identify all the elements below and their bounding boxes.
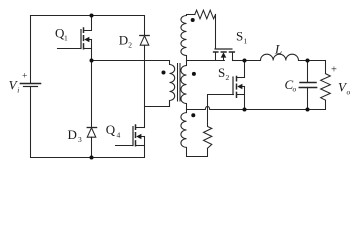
Q4 channel dashes: [135, 125, 137, 146]
transistor Q1: [58, 16, 92, 61]
S1 drain stub: [232, 53, 234, 61]
svg-text:L: L: [274, 42, 282, 57]
Q1 body stub with arrow: [89, 39, 92, 41]
Q1 source stub: [84, 48, 91, 50]
wire tap1 to S1 source: [187, 60, 225, 62]
svg-text:Q: Q: [106, 122, 116, 137]
Q1 gate lead: [58, 48, 81, 50]
Q4 body stub with arrow: [141, 136, 145, 138]
wire top rail: [31, 15, 145, 17]
svg-text:3: 3: [78, 135, 82, 144]
svg-text:+: +: [331, 64, 337, 75]
wire node A to L: [245, 60, 261, 62]
battery Vi plate short (-): [24, 86, 38, 88]
wire upper winding to gate resistor: [187, 14, 195, 16]
S2 drain stub: [237, 77, 245, 79]
Q1 channel dashes: [83, 28, 85, 49]
S2 gate lead: [208, 95, 234, 126]
svg-text:D: D: [68, 127, 77, 142]
svg-text:2: 2: [226, 73, 230, 82]
svg-text:o: o: [293, 85, 297, 94]
transformer primary winding: [170, 61, 175, 107]
svg-text:o: o: [347, 88, 351, 97]
polarity dot lower winding: [191, 113, 195, 117]
diode D2: [140, 16, 149, 46]
Q1 gate bar: [80, 30, 82, 49]
svg-text:D: D: [119, 33, 128, 48]
diode D3 branch vertical upper: [91, 61, 93, 128]
wire primary bottom line: [145, 101, 170, 107]
S1 source stub: [215, 53, 217, 61]
wire resistor to S1 gate: [215, 15, 217, 49]
svg-text:i: i: [17, 85, 19, 94]
Q4 source stub: [136, 145, 144, 147]
S2 source stub: [237, 94, 245, 96]
S2 channel dashes: [236, 77, 238, 98]
transformer core: [178, 64, 181, 102]
inductor L: [261, 54, 299, 60]
diode D3 lower lead: [91, 137, 93, 157]
S1 gate bar: [215, 48, 232, 50]
secondary main winding: [181, 61, 187, 110]
wire left vertical to battery: [30, 16, 32, 83]
S1 body stub with arrow: [223, 57, 225, 61]
polarity dot primary: [162, 71, 166, 75]
node A S1-S2-L: [243, 59, 247, 63]
node Q1 drain / top rail: [90, 14, 94, 18]
node Q1 source / D3 / primary: [90, 59, 94, 63]
node Co bottom / rail: [306, 108, 310, 112]
Q4 body-source junction vertical: [144, 137, 146, 158]
wire battery bottom to bottom rail: [30, 87, 32, 157]
svg-text:S: S: [218, 65, 225, 80]
S2 body-source vertical to rail: [244, 87, 246, 110]
secondary lower gate winding: [181, 110, 187, 157]
transistor Q4: [116, 125, 145, 158]
transistor S1 (rotated): [187, 49, 245, 61]
Q1 drain stub: [84, 16, 91, 31]
load resistor: [308, 61, 331, 110]
polarity dot upper winding: [191, 18, 195, 22]
wire S1 drain to node A: [233, 60, 245, 62]
node B L-Co: [306, 59, 310, 63]
S1 channel dashes: [214, 51, 235, 53]
diode D3: [87, 128, 96, 138]
svg-text:+: +: [22, 71, 27, 81]
wire L to node B and load: [299, 60, 326, 62]
wire D2 anode down to Q4 drain: [144, 45, 146, 127]
svg-text:1: 1: [244, 37, 248, 46]
wire resistor bottom to lower winding: [187, 148, 208, 156]
resistor S1 gate series: [195, 10, 216, 19]
Q4 gate bar: [132, 127, 134, 146]
S2 drain vertical from node A: [244, 61, 246, 78]
battery Vi plate long (+): [21, 83, 41, 85]
secondary upper gate winding: [181, 15, 187, 61]
wire tap2 rail with hop over gate lead: [187, 106, 245, 109]
Q4 drain stub: [136, 127, 144, 129]
wire Q1 source to primary top: [92, 60, 170, 62]
svg-text:4: 4: [117, 131, 121, 140]
Q1 body-source junction vertical: [91, 40, 93, 61]
transistor S2: [208, 61, 245, 126]
svg-text:2: 2: [128, 41, 132, 50]
node S2 source / rail: [243, 108, 247, 112]
svg-text:S: S: [236, 28, 243, 43]
svg-text:1: 1: [64, 33, 68, 42]
S2 gate bar: [232, 77, 234, 95]
node D3 / bottom rail: [90, 156, 94, 160]
resistor S2 gate series: [204, 127, 212, 149]
polarity dot main secondary: [192, 72, 196, 76]
S2 body stub with arrow: [242, 86, 245, 88]
Q4 gate lead: [116, 145, 133, 147]
wire bottom rail: [31, 157, 145, 159]
capacitor Co: [299, 61, 316, 110]
